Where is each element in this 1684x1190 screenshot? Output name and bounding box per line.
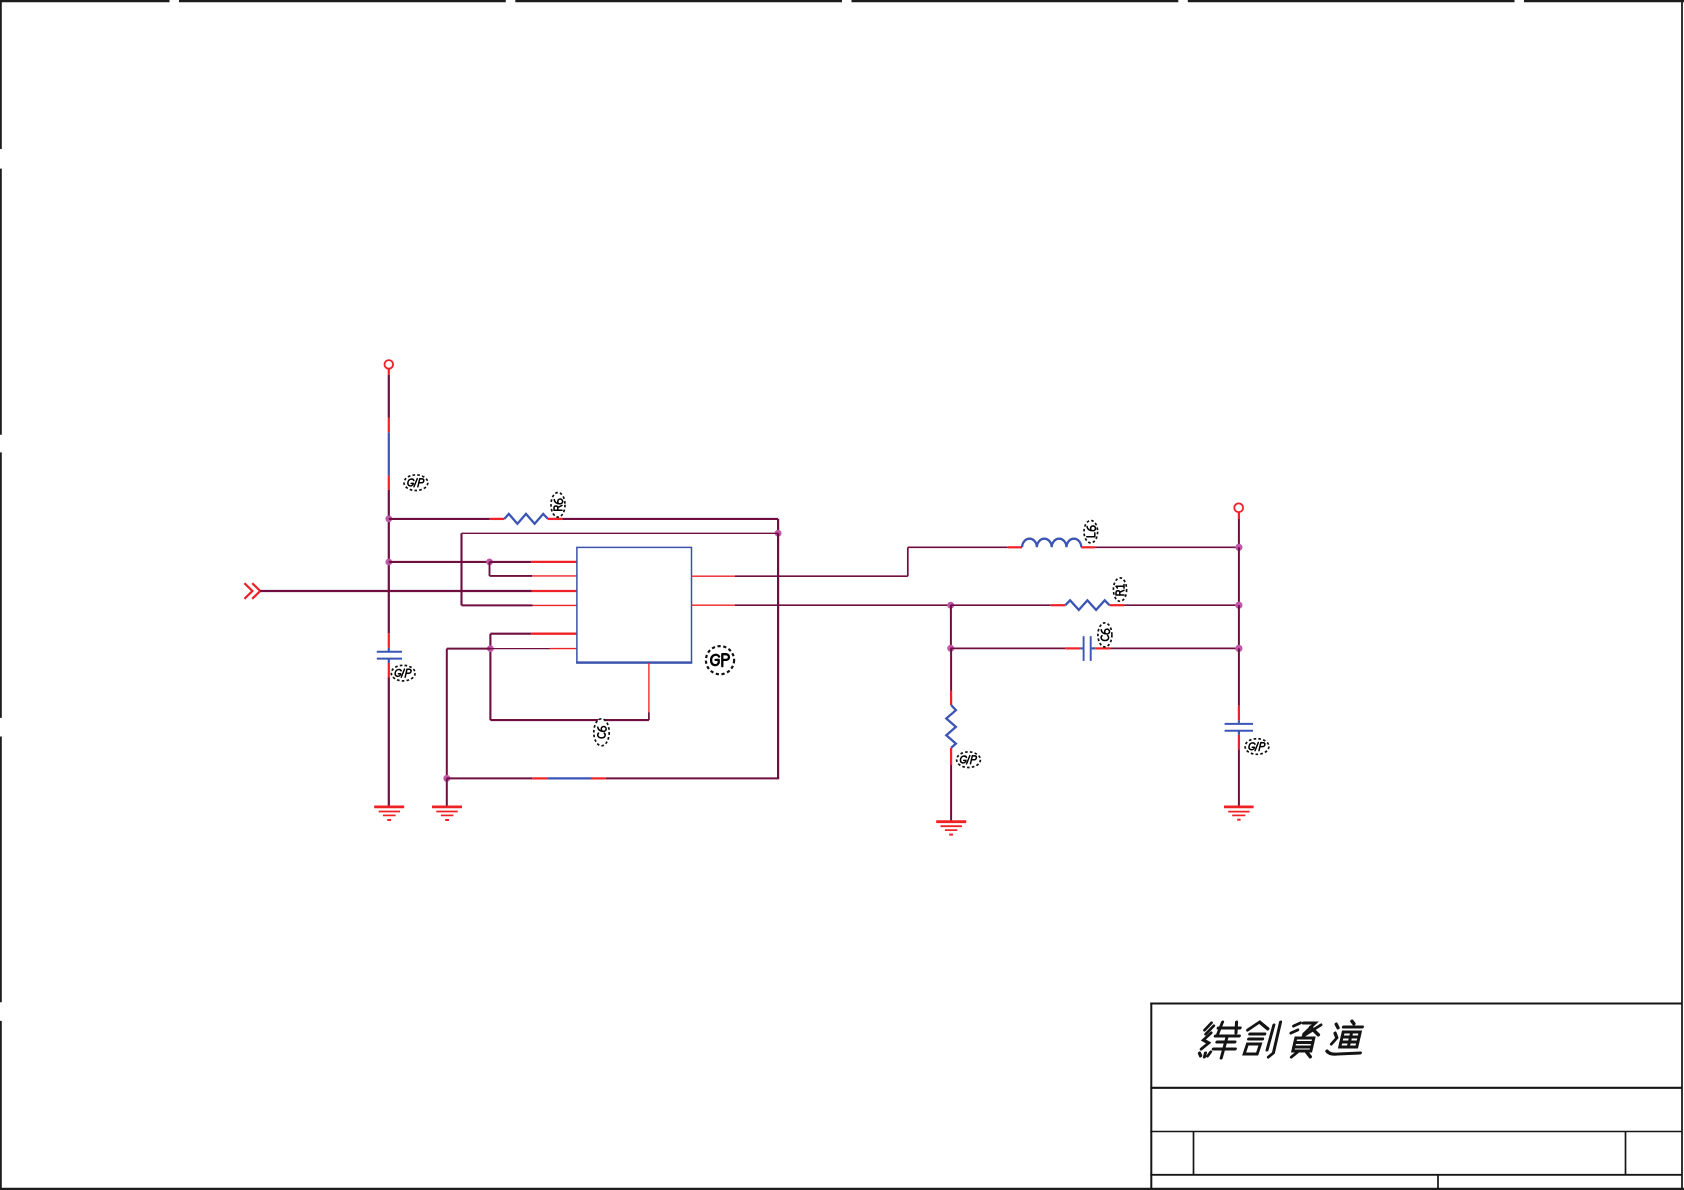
blue lead below C7 <box>1238 731 1240 734</box>
ground GND4 <box>1224 807 1254 820</box>
node A2 junction <box>385 559 392 566</box>
node F junction <box>1235 544 1242 551</box>
label L6 ellipse <box>1084 521 1098 543</box>
char Zi <box>1285 1023 1321 1057</box>
pin4 maroon feeder <box>462 604 533 606</box>
rail down from node B to bottom row <box>777 533 779 778</box>
red lead left of R1 <box>1051 604 1066 606</box>
bottom row maroon <box>447 777 532 779</box>
node H junction <box>1235 602 1242 609</box>
row A red lead left of R6 <box>490 518 505 520</box>
wire left rail maroon to node A1 <box>388 490 390 519</box>
wire maroon to right rail <box>1110 647 1239 649</box>
pin5 red stub <box>531 633 577 635</box>
ground GND1 <box>374 807 404 820</box>
capacitor C1 plates <box>377 652 402 659</box>
wire left rail blue segment <box>388 432 390 475</box>
label R1 ellipse <box>1113 578 1126 601</box>
pin1 row: maroon from A2 <box>389 561 490 563</box>
pin3 row: maroon wire from input port <box>260 590 531 592</box>
wire maroon to inductor <box>908 546 1008 548</box>
vertical feed to pin4 <box>460 533 462 605</box>
pin2 red stub <box>532 575 577 577</box>
border frame left edge <box>0 0 2 1190</box>
pin5 corner wire <box>490 633 531 635</box>
wire maroon right pin2 <box>735 604 951 606</box>
wire left rail red segment 2 <box>388 475 390 489</box>
label C6 ellipse (series cap) <box>1098 623 1112 647</box>
red lead left of C6 <box>1065 647 1080 649</box>
label G/P ellipse near C1 <box>391 665 415 681</box>
bottom row red segment 2 <box>592 777 606 779</box>
wire maroon down to ground 1 <box>388 678 390 807</box>
vertical link node G to node I <box>950 605 952 648</box>
loop left vertical <box>489 634 491 720</box>
power connector P2 (right, open red circle) <box>1234 503 1243 512</box>
wire left rail red stub below connector <box>388 369 390 375</box>
wire corner down from row A <box>777 519 779 533</box>
pin4 red stub <box>533 604 577 606</box>
right rail node F to node H <box>1238 547 1240 605</box>
node C junction <box>486 559 493 566</box>
red stub below connector P2 <box>1238 512 1240 519</box>
wire left rail red segment <box>388 418 390 432</box>
IC right pin1 red stub <box>692 575 735 577</box>
red above cap C7 <box>1238 706 1240 721</box>
wire maroon right pin1 <box>735 575 908 577</box>
ground GND2 <box>432 807 462 820</box>
pin3 red stub <box>532 590 577 592</box>
IC bottom pin red <box>648 663 650 712</box>
bottom row maroon to rail corner <box>606 777 779 779</box>
node E junction <box>443 775 450 782</box>
wire maroon to right rail <box>1124 604 1239 606</box>
wire maroon to right rail <box>1095 546 1239 548</box>
pin1 red stub <box>531 561 577 563</box>
wire from node D to left <box>447 648 491 650</box>
node B junction <box>775 530 782 537</box>
border frame right edge <box>1681 0 1683 1190</box>
bottom row blue segment <box>548 777 592 779</box>
wire blue lead below C1 <box>388 659 390 663</box>
wire step up <box>907 547 909 576</box>
border frame top edge <box>0 0 1684 2</box>
node I junction <box>947 645 954 652</box>
pin2 maroon feeder <box>490 575 533 577</box>
label G/P ellipse top-left rail <box>404 475 428 491</box>
blue lead left of C6 <box>1080 647 1082 649</box>
row B thin feedback wire <box>462 532 779 534</box>
red below C7 <box>1238 735 1240 750</box>
label G/P ellipse near R2 <box>957 752 981 768</box>
IC right pin2 red stub <box>692 604 735 606</box>
inductor L6 coil <box>1022 539 1081 548</box>
capacitor C7 plates <box>1225 724 1253 731</box>
red lead left of L6 <box>1008 546 1022 548</box>
wire ground 2 drop <box>446 778 448 806</box>
label C6 ellipse below IC <box>594 719 609 746</box>
label GP dashed circle <box>706 646 734 674</box>
IC U1 bottom edge (thick) <box>576 661 692 663</box>
cap row maroon from node I <box>951 647 1066 649</box>
pin6 red stub <box>550 648 577 650</box>
node A1 junction <box>385 515 392 522</box>
pin1 maroon feeder <box>490 561 532 563</box>
red lead below R (vertical) <box>950 748 952 765</box>
row A maroon to right corner <box>562 518 778 520</box>
char Wei <box>1198 1022 1242 1058</box>
ground GND3 <box>936 822 966 835</box>
input port chevron <box>244 583 260 599</box>
red lead above R (vertical) <box>950 691 952 705</box>
wire left rail maroon segment <box>388 375 390 418</box>
capacitor C6 plates (vertical) <box>1084 636 1091 661</box>
resistor R6 (horizontal zigzag) <box>504 514 548 524</box>
right rail maroon to node F <box>1238 519 1240 547</box>
wire blue lead into C1 <box>388 648 390 651</box>
node D junction <box>487 645 494 652</box>
char Chuang <box>1241 1022 1280 1057</box>
pin6 maroon feeder (thin) <box>490 648 550 650</box>
wire red below C1 <box>388 663 390 678</box>
wire left rail node A2 down to capacitor <box>388 562 390 633</box>
maroon down to ground 4 <box>1238 749 1240 806</box>
maroon down to ground 3 <box>950 765 952 821</box>
IC U1 block <box>577 547 692 663</box>
label G/P ellipse near C7 <box>1245 739 1269 755</box>
wire left rail node A1 to node A2 <box>388 519 390 562</box>
bottom row red segment <box>532 777 547 779</box>
resistor R2 (vertical zigzag) <box>946 705 956 748</box>
row A: wire maroon from A1 to resistor R6 <box>389 518 490 520</box>
power connector P1 (left, open red circle) <box>385 360 394 369</box>
char Tong <box>1326 1021 1368 1054</box>
right rail maroon below node J <box>1238 648 1240 705</box>
IC bottom pin maroon <box>648 712 650 720</box>
red lead right of L6 <box>1081 546 1095 548</box>
red lead right of R1 <box>1110 604 1125 606</box>
label R6 ellipse <box>551 493 565 518</box>
wire red above capacitor C1 <box>388 633 390 648</box>
border frame bottom edge <box>0 1188 1684 1190</box>
right rail node H to node J <box>1238 605 1240 648</box>
vertical down to bottom node <box>446 649 448 779</box>
node J junction <box>1235 645 1242 652</box>
pin2 drop from node C <box>489 562 491 576</box>
company logo text (hand-drawn CJK strokes) <box>1198 1021 1368 1058</box>
title block <box>1150 1003 1682 1190</box>
blue lead right of C6 <box>1092 647 1096 649</box>
wire maroon node G to R1 <box>951 604 1051 606</box>
vertical resistor maroon above <box>950 648 952 691</box>
resistor R1 zigzag <box>1065 600 1109 610</box>
node G junction <box>947 602 954 609</box>
red lead right of C6 <box>1095 647 1110 649</box>
loop bottom wire <box>490 719 649 721</box>
blue lead into C7 <box>1238 720 1240 723</box>
row A red lead right of R6 <box>548 518 562 520</box>
